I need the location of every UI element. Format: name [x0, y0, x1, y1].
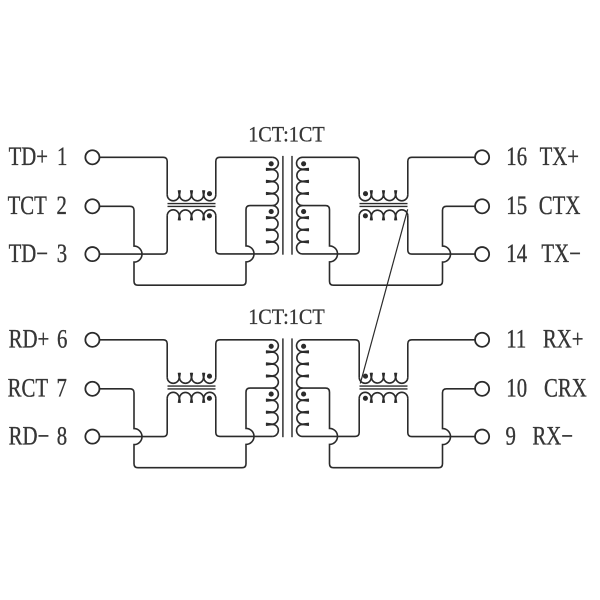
- choke R1 winding A (top) (TX channel): [359, 190, 408, 201]
- pin 9: [475, 430, 489, 444]
- xfmr T1 core (TX channel): [291, 156, 293, 255]
- pin 1: [85, 150, 99, 164]
- svg-text:TCT: TCT: [8, 192, 47, 221]
- wire choke R1 to pin16 (TX channel): [408, 157, 475, 195]
- pin 7: [85, 382, 99, 396]
- pin 2: [85, 199, 99, 213]
- choke L1 core (RX channel): [168, 388, 216, 390]
- svg-text:3: 3: [57, 240, 67, 269]
- svg-text:1: 1: [57, 143, 67, 172]
- wire choke R1 to pin14 (RX channel): [408, 398, 475, 436]
- xfmr T1 secondary dot B (TX channel): [301, 209, 306, 214]
- choke R1 winding A (top) (RX channel): [359, 373, 408, 384]
- crossing reference line: [360, 209, 407, 383]
- svg-text:1CT:1CT: 1CT:1CT: [248, 122, 325, 147]
- wire choke L1 to xfmr primary bottom (TX channel): [216, 216, 273, 254]
- choke L1 winding A (top) (RX channel): [167, 373, 216, 384]
- choke R1 core (RX channel): [360, 388, 408, 390]
- xfmr T1 primary dot B (TX channel): [269, 209, 274, 214]
- svg-text:8: 8: [57, 423, 67, 452]
- svg-text:14: 14: [506, 240, 527, 269]
- svg-text:6: 6: [57, 325, 68, 354]
- wire choke L1 to xfmr primary top (TX channel): [216, 157, 273, 195]
- wire choke R1 to xfmr secondary bottom (TX channel): [303, 216, 360, 254]
- svg-text:15: 15: [506, 192, 527, 221]
- wire xfmr primary CT to pin2 (detour) (RX channel): [100, 388, 273, 468]
- xfmr T1 secondary dot A (TX channel): [301, 161, 306, 166]
- xfmr T1 secondary winding upper (TX channel): [297, 157, 309, 205]
- svg-text:RX+: RX+: [543, 325, 584, 354]
- choke R1 dot A (RX channel): [363, 374, 368, 379]
- wire choke L1 to xfmr primary top (RX channel): [216, 340, 273, 378]
- choke L1 dot A (TX channel): [207, 191, 212, 196]
- wire choke L1 to xfmr primary bottom (RX channel): [216, 398, 273, 436]
- choke L1 winding B (bottom) (RX channel): [167, 392, 216, 403]
- pin 16: [475, 150, 489, 164]
- pin 11: [475, 333, 489, 347]
- svg-text:10: 10: [506, 374, 527, 403]
- xfmr T1 secondary winding lower (RX channel): [297, 388, 309, 436]
- wire choke R1 to pin16 (RX channel): [408, 340, 475, 378]
- choke L1 core (TX channel): [168, 205, 216, 207]
- svg-text:1CT:1CT: 1CT:1CT: [248, 304, 325, 329]
- choke L1 core (TX channel): [168, 203, 216, 205]
- svg-text:RX−: RX−: [532, 423, 573, 452]
- choke L1 winding B (bottom) (TX channel): [167, 210, 216, 221]
- choke R1 dot B (TX channel): [363, 213, 368, 218]
- wire xfmr secondary CT to pin15 (detour) (TX channel): [303, 206, 475, 286]
- xfmr T1 core (TX channel): [282, 156, 284, 255]
- pin 8: [85, 430, 99, 444]
- svg-text:RD−: RD−: [9, 423, 50, 452]
- wire choke R1 to pin14 (TX channel): [408, 216, 475, 254]
- svg-text:CTX: CTX: [539, 192, 581, 221]
- wire pin3 to choke L1 (RX channel): [100, 398, 168, 436]
- wire xfmr secondary top to choke R1 (RX channel): [303, 340, 360, 378]
- svg-text:TD−: TD−: [9, 240, 48, 269]
- pin 10: [475, 382, 489, 396]
- xfmr T1 secondary dot B (RX channel): [301, 392, 306, 397]
- choke R1 dot A (TX channel): [363, 191, 368, 196]
- wire pin1 to choke L1 (TX channel): [100, 157, 168, 195]
- xfmr T1 primary winding lower (RX channel): [266, 388, 278, 436]
- xfmr T1 primary winding lower (TX channel): [266, 206, 278, 254]
- svg-text:TX+: TX+: [540, 143, 579, 172]
- choke L1 core (RX channel): [168, 385, 216, 387]
- xfmr T1 primary dot B (RX channel): [269, 392, 274, 397]
- xfmr T1 core (RX channel): [282, 338, 284, 437]
- svg-text:7: 7: [56, 374, 67, 403]
- xfmr T1 core (RX channel): [291, 338, 293, 437]
- svg-text:16: 16: [506, 143, 527, 172]
- wire pin1 to choke L1 (RX channel): [100, 340, 168, 378]
- svg-text:TX−: TX−: [541, 240, 580, 269]
- choke L1 dot B (TX channel): [207, 213, 212, 218]
- wire choke R1 to xfmr secondary bottom (RX channel): [303, 398, 360, 436]
- wire xfmr primary CT to pin2 (detour) (TX channel): [100, 206, 273, 286]
- pin 6: [85, 333, 99, 347]
- choke L1 dot B (RX channel): [207, 396, 212, 401]
- xfmr T1 primary dot A (TX channel): [269, 161, 274, 166]
- choke L1 dot A (RX channel): [207, 374, 212, 379]
- svg-text:2: 2: [56, 192, 66, 221]
- svg-text:CRX: CRX: [544, 374, 587, 403]
- xfmr T1 secondary dot A (RX channel): [301, 344, 306, 349]
- pin 15: [475, 199, 489, 213]
- svg-text:11: 11: [506, 325, 526, 354]
- svg-text:RD+: RD+: [9, 325, 50, 354]
- choke R1 winding B (bottom) (TX channel): [359, 210, 408, 221]
- xfmr T1 primary dot A (RX channel): [269, 344, 274, 349]
- svg-text:9: 9: [506, 423, 516, 452]
- choke R1 core (RX channel): [360, 385, 408, 387]
- choke L1 winding A (top) (TX channel): [167, 190, 216, 201]
- choke R1 core (TX channel): [360, 203, 408, 205]
- xfmr T1 secondary winding lower (TX channel): [297, 206, 309, 254]
- xfmr T1 secondary winding upper (RX channel): [297, 340, 309, 388]
- pin 3: [85, 247, 99, 261]
- wire pin3 to choke L1 (TX channel): [100, 216, 168, 254]
- choke R1 core (TX channel): [360, 205, 408, 207]
- choke R1 winding B (bottom) (RX channel): [359, 392, 408, 403]
- xfmr T1 primary winding upper (TX channel): [266, 157, 278, 205]
- wire xfmr secondary top to choke R1 (TX channel): [303, 157, 360, 195]
- svg-text:TD+: TD+: [9, 143, 48, 172]
- pin 14: [475, 247, 489, 261]
- wire xfmr secondary CT to pin15 (detour) (RX channel): [303, 388, 475, 468]
- choke R1 dot B (RX channel): [363, 396, 368, 401]
- svg-text:RCT: RCT: [8, 374, 48, 403]
- xfmr T1 primary winding upper (RX channel): [266, 340, 278, 388]
